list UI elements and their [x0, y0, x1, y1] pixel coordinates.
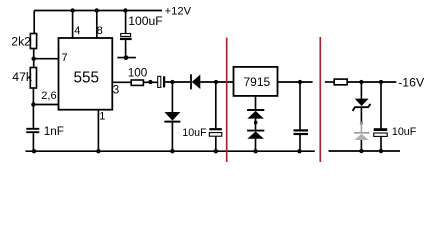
svg-text:3: 3 — [113, 85, 119, 97]
node junction zener branch — [359, 80, 363, 84]
capacitor C6 10uF minus plate (solid) — [374, 128, 388, 131]
node dot on ground bar — [124, 55, 129, 60]
diode D2 triangle (pointing down) — [164, 112, 180, 121]
svg-text:1nF: 1nF — [44, 125, 64, 138]
node junction D1/C4 — [214, 80, 218, 84]
resistor R3 100 — [131, 80, 143, 85]
node gnd C1 — [32, 149, 36, 153]
svg-text:555: 555 — [74, 70, 100, 87]
wire pin 8 — [96, 11, 98, 38]
wire R2 down to C1 — [32, 88, 34, 128]
wire ground rail main — [26, 150, 315, 152]
wire pin 1 to ground rail — [97, 110, 99, 152]
capacitor C2 100uF minus plate — [120, 38, 132, 40]
svg-text:-16V: -16V — [398, 76, 425, 90]
IC U2 7915 box — [234, 67, 278, 96]
capacitor C1 1nF plates — [26, 128, 39, 130]
capacitor C4 10uF minus plate (solid) — [209, 128, 222, 130]
wire R4 to -16V — [347, 81, 396, 83]
wire D6 to ground rail — [360, 140, 362, 151]
capacitor C4 10uF plus plate (hollow) — [209, 133, 222, 137]
wire down to D2 — [171, 82, 173, 112]
wire C4 to ground rail — [215, 136, 217, 151]
node gray square — [360, 122, 363, 125]
diode D2 cathode bar — [164, 121, 180, 123]
wire output down to C5 — [299, 82, 301, 130]
svg-text:10uF: 10uF — [392, 126, 417, 138]
svg-text:2k2: 2k2 — [11, 34, 31, 48]
svg-text:7: 7 — [62, 52, 68, 64]
wire 7915 output — [278, 81, 313, 83]
red separator line 1 — [226, 38, 228, 163]
wire D3 to D4 — [255, 119, 257, 130]
diode D4 cathode bar — [247, 130, 264, 132]
wire right section input — [325, 81, 334, 83]
resistor R4 — [334, 79, 347, 85]
diode D6 cathode bar (gray) — [354, 132, 369, 134]
wire pin 3 out — [112, 81, 131, 83]
wire gray segment — [360, 125, 362, 132]
diode D3 triangle (pointing up) — [247, 111, 264, 119]
wire rail to C2 — [125, 11, 127, 34]
node junction after R3 — [148, 80, 152, 84]
resistor R1 2k2 — [30, 34, 36, 49]
svg-text:1: 1 — [99, 111, 105, 123]
wire C1 to ground rail — [32, 133, 34, 151]
wire right ground rail — [329, 150, 401, 152]
wire C2 to ground bar — [125, 40, 127, 58]
node gnd D4 — [253, 149, 257, 153]
wire pin 7 — [34, 58, 59, 60]
wire pin 2,6 — [33, 104, 58, 106]
node junction R2/C1/pin2,6 — [31, 102, 35, 106]
node junction C3/D2 branch — [170, 80, 174, 84]
node gnd pin1 — [96, 149, 100, 153]
wire pin 4 — [72, 11, 74, 38]
wire 7915 gnd pin down — [255, 96, 257, 109]
node gnd D6 — [359, 149, 363, 153]
wire zener to gray diode — [360, 108, 362, 122]
red separator line 2 — [319, 37, 321, 162]
zener D5 triangle (pointing down) — [355, 99, 369, 106]
wire D1 to 7915 input — [200, 81, 233, 83]
svg-text:100uF: 100uF — [128, 14, 163, 28]
node junction R1/R2/pin7 — [32, 57, 36, 61]
wire C6 branch down — [380, 82, 382, 130]
svg-text:100: 100 — [128, 67, 148, 80]
svg-text:47k: 47k — [12, 70, 33, 84]
node junction rail/C2 — [123, 8, 127, 12]
node gnd C5 — [297, 149, 301, 153]
capacitor C6 10uF plus plate (hollow) — [374, 133, 388, 136]
node junction output/C5 — [298, 80, 302, 84]
diode D6 triangle (gray, pointing up) — [354, 134, 368, 140]
wire R1 to R2 — [33, 49, 35, 68]
node junction C6 branch — [379, 80, 383, 84]
capacitor C5 plates — [294, 129, 309, 131]
svg-text:2,6: 2,6 — [41, 90, 56, 102]
wire R3 to C3 — [143, 81, 157, 83]
resistor R2 47k — [30, 68, 36, 89]
node gnd C6 — [379, 149, 383, 153]
wire C3 to D1 — [165, 81, 190, 83]
node gnd C4 — [214, 149, 218, 153]
capacitor C2 100uF plus plate (hollow) — [121, 34, 131, 37]
diode D3 cathode bar — [247, 109, 264, 111]
capacitor C3 minus plate — [163, 76, 165, 87]
diode D4 triangle (pointing up) — [247, 132, 264, 139]
diode D1 cathode bar — [190, 74, 192, 89]
wire junction to C4 — [215, 82, 217, 128]
wire D2 to ground rail — [171, 123, 173, 152]
zener D5 cathode bar with bent tails — [353, 104, 371, 111]
svg-text:10uF: 10uF — [182, 127, 207, 139]
diode D1 triangle — [192, 75, 201, 90]
node junction rail/pin4 — [70, 8, 74, 12]
svg-text:4: 4 — [74, 25, 80, 37]
ground bar under C2 — [117, 57, 135, 59]
op-amp U1 555 timer box — [59, 38, 113, 110]
wire C5 to ground rail — [299, 135, 301, 151]
wire down to zener D5 — [360, 82, 362, 99]
node square between D3 and D4 — [254, 121, 257, 124]
node junction rail/pin8 — [95, 8, 99, 12]
svg-text:7915: 7915 — [244, 75, 271, 89]
capacitor C3 plus plate (hollow) — [158, 76, 161, 87]
wire top +12V rail — [34, 10, 162, 12]
wire D4 to ground rail — [255, 139, 257, 152]
svg-text:+12V: +12V — [165, 5, 192, 17]
svg-text:8: 8 — [97, 25, 103, 37]
node gnd D2 — [170, 149, 174, 153]
wire C6 to ground rail — [380, 136, 382, 151]
wire left vertical from rail to R1 — [33, 11, 35, 34]
